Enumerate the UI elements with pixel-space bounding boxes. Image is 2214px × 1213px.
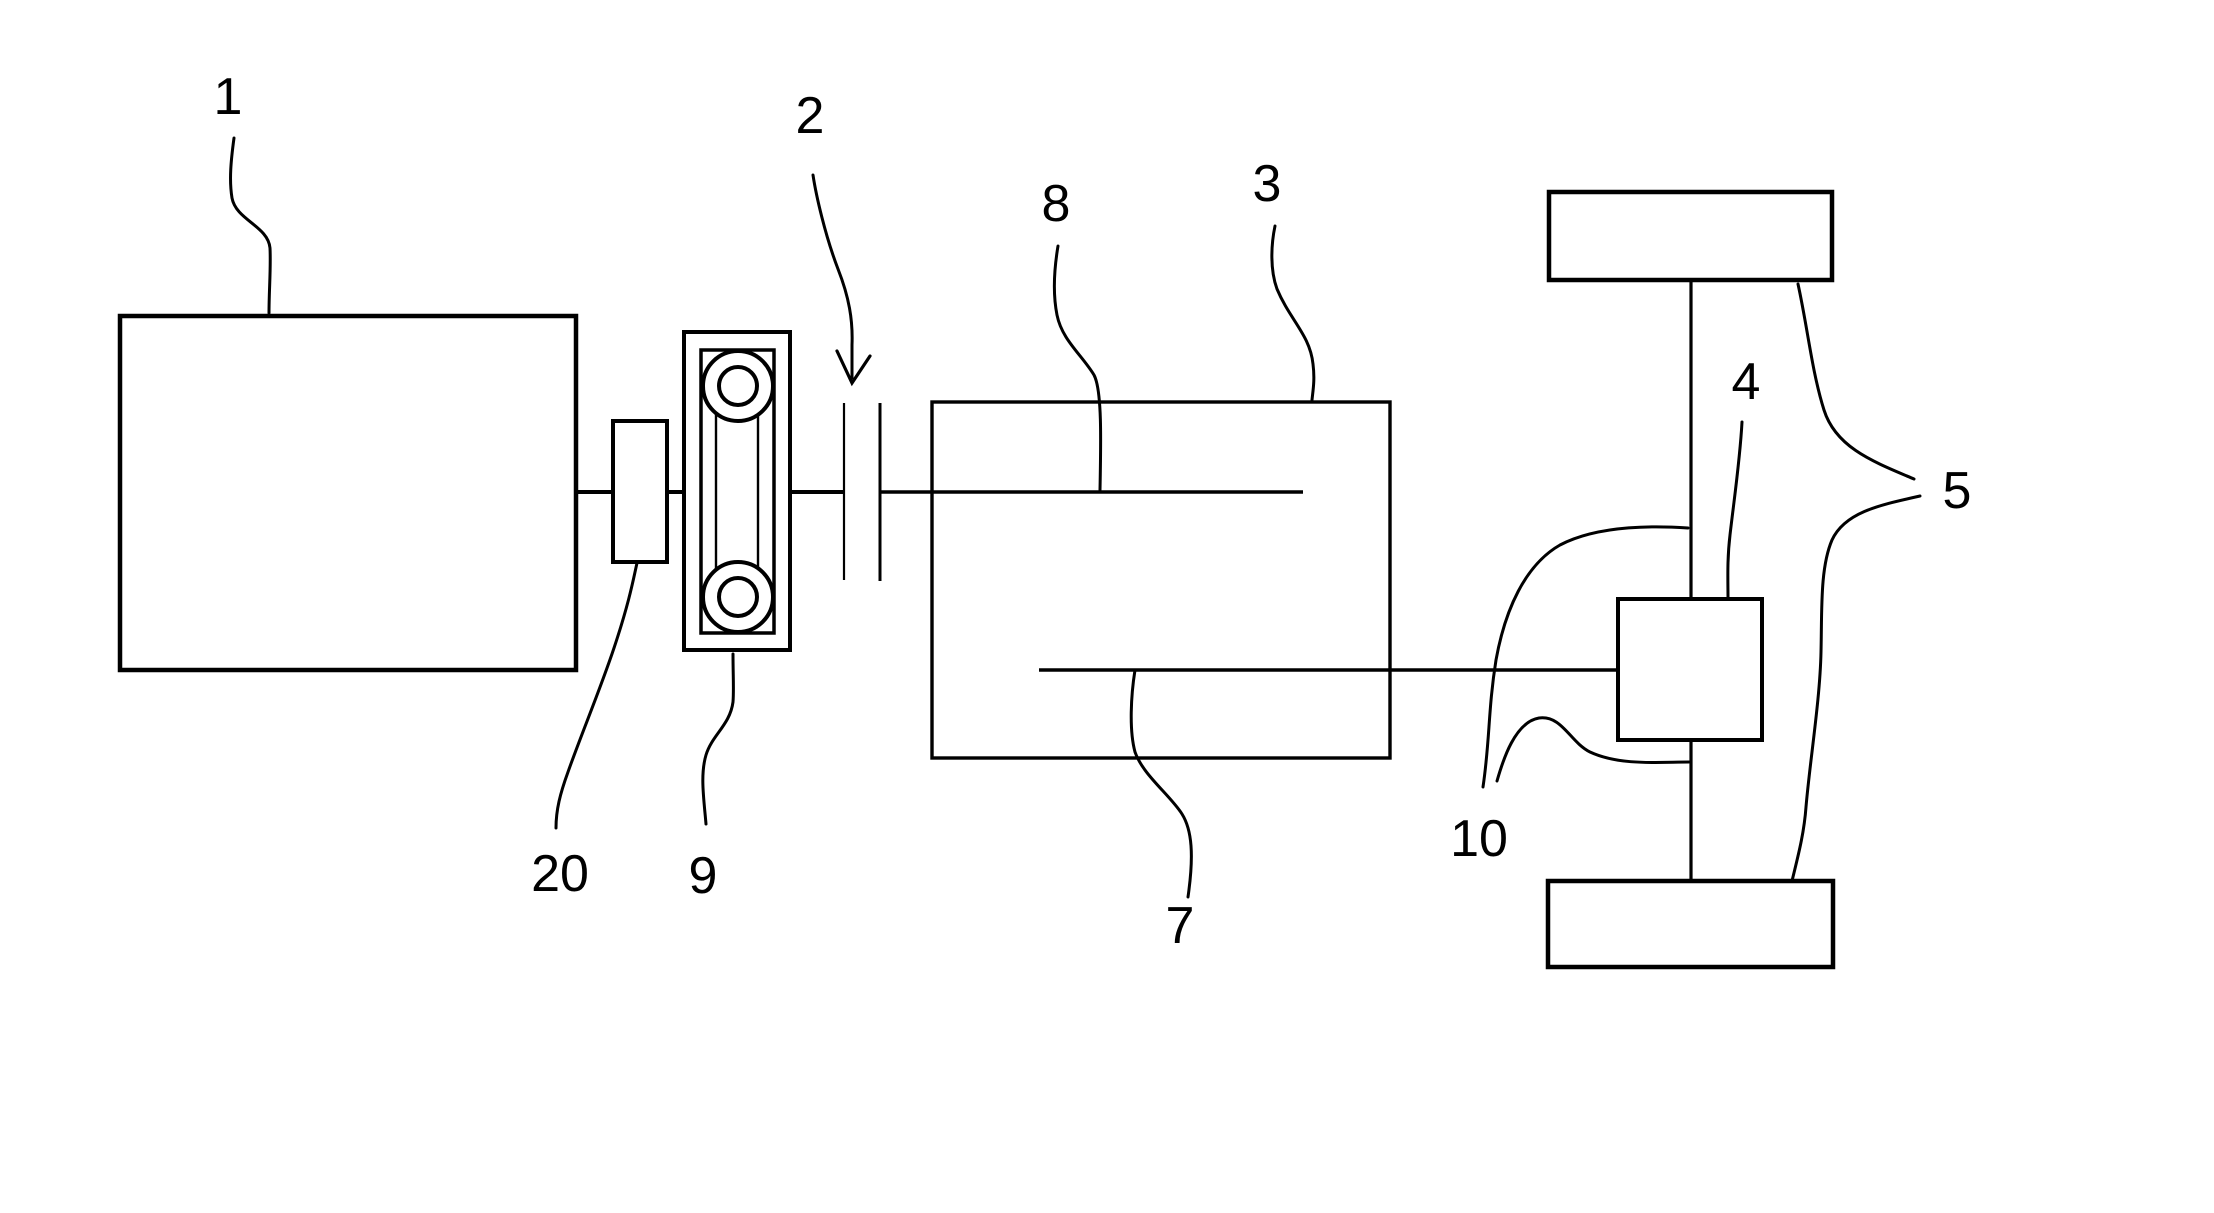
svg-text:4: 4: [1732, 353, 1761, 411]
svg-text:7: 7: [1166, 897, 1195, 955]
svg-text:1: 1: [214, 68, 243, 126]
svg-text:5: 5: [1943, 462, 1972, 520]
svg-text:8: 8: [1042, 175, 1071, 233]
svg-text:3: 3: [1253, 155, 1282, 213]
svg-text:20: 20: [531, 845, 589, 903]
svg-text:9: 9: [689, 847, 718, 905]
svg-text:2: 2: [796, 87, 825, 145]
svg-text:10: 10: [1450, 810, 1508, 868]
